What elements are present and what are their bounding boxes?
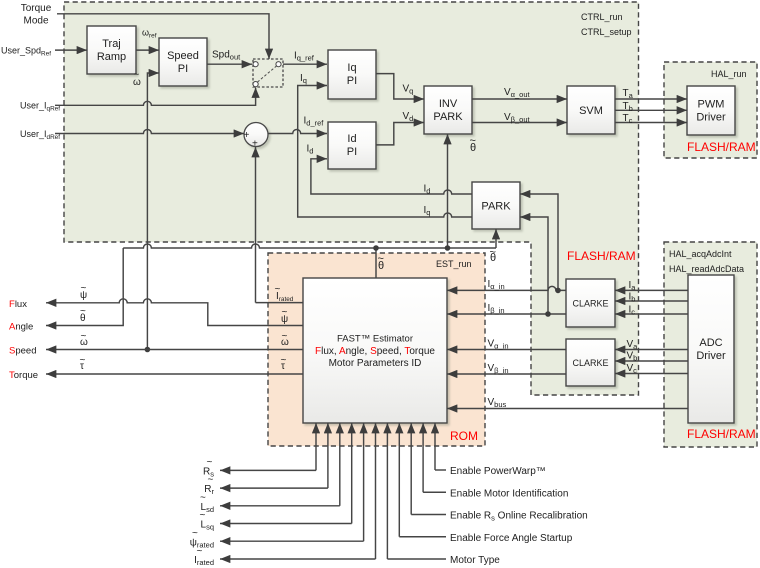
svg-text:PARK: PARK [433, 111, 463, 123]
svg-text:Vbus: Vbus [488, 397, 507, 409]
wire Torque Mode to switch [57, 14, 269, 59]
svg-text:HAL_readAdcData: HAL_readAdcData [669, 264, 744, 274]
wire Id feedback from PARK to Id PI [311, 159, 472, 194]
wire ADC to CLARKE1 (Ic) [615, 313, 688, 315]
wire torque output (tau) row [46, 373, 303, 375]
svg-text:Irated: Irated [194, 555, 214, 567]
wire Enable Rs Online Recalibration [410, 423, 412, 515]
svg-text:~: ~ [80, 355, 86, 366]
wire flux output (psi) from FAST to Flux arrow [46, 299, 303, 326]
svg-text:~: ~ [208, 475, 214, 486]
block ADC Driver [688, 275, 734, 423]
junction dot Ibeta riser [545, 311, 551, 317]
svg-text:Vα_in: Vα_in [488, 339, 509, 351]
svg-text:Iα_in: Iα_in [488, 279, 505, 291]
svg-text:PI: PI [347, 146, 357, 158]
svg-text:Iβ_in: Iβ_in [488, 303, 505, 315]
wire Irated pin horizontal into FAST [256, 302, 304, 304]
svg-text:~: ~ [200, 510, 206, 521]
junction dot speed feedback on speed row [145, 347, 151, 353]
svg-text:+: + [244, 130, 250, 141]
svg-text:Motor Type: Motor Type [450, 555, 500, 566]
wire FAST param psi_rated out [363, 423, 365, 541]
wire ADC to CLARKE2 (Vb) [615, 360, 688, 362]
junction dot Ialpha riser [555, 288, 561, 294]
block FAST Estimator [303, 278, 447, 423]
block Iq PI [328, 50, 376, 99]
wire FAST param Rr out [327, 423, 329, 488]
wire SVM to PWM Driver (Tb) [615, 109, 687, 111]
wire speed feedback into Speed PI [147, 73, 159, 350]
svg-text:~: ~ [490, 247, 496, 259]
svg-text:~: ~ [200, 492, 206, 503]
svg-text:Motor Parameters ID: Motor Parameters ID [329, 358, 422, 369]
svg-text:Enable Force Angle Startup: Enable Force Angle Startup [450, 533, 573, 544]
svg-text:User_IqRef: User_IqRef [20, 101, 60, 113]
wire FAST param Lsq out [351, 423, 353, 524]
wire User_SpdRef to Traj Ramp [55, 49, 87, 51]
node CTRL region (green dashed union) [64, 2, 639, 395]
svg-text:~: ~ [282, 307, 288, 318]
svg-text:Enable PowerWarp™: Enable PowerWarp™ [450, 466, 546, 477]
svg-text:Traj: Traj [102, 38, 121, 50]
block PARK [472, 182, 520, 229]
wire switch to Iq PI (Iq_ref) [283, 63, 327, 65]
svg-text:HAL_run: HAL_run [711, 69, 747, 79]
wire ADC to CLARKE2 (Vc) [615, 373, 688, 375]
wire Traj Ramp to Speed PI [136, 49, 159, 51]
wire theta riser into INV PARK [447, 134, 449, 248]
svg-text:Speed: Speed [9, 346, 36, 357]
wire theta bus [123, 244, 496, 248]
svg-text:~: ~ [281, 355, 287, 366]
wire FAST param I_rated out [375, 423, 377, 559]
svg-text:~: ~ [81, 331, 87, 342]
svg-text:~: ~ [282, 331, 288, 342]
svg-text:Driver: Driver [696, 350, 726, 362]
svg-text:Ramp: Ramp [97, 51, 126, 63]
svg-text:Enable Motor Identification: Enable Motor Identification [450, 488, 568, 499]
svg-text:Torque: Torque [9, 370, 38, 381]
svg-text:CTRL_run: CTRL_run [581, 12, 623, 22]
block INV PARK [424, 86, 472, 134]
svg-text:FLASH/RAM: FLASH/RAM [687, 427, 756, 441]
svg-text:CTRL_setup: CTRL_setup [581, 27, 632, 37]
wire Iq feedback from PARK to Iq PI [298, 86, 472, 218]
junction dot theta bus at FAST drop [373, 245, 379, 251]
svg-text:Flux: Flux [9, 299, 27, 310]
wire Irated estimate up into summing junction [255, 147, 257, 303]
block PWM Driver [687, 86, 735, 135]
wire ADC to CLARKE1 (Ia) [615, 289, 688, 291]
node HAL_run region (top-right dashed) [664, 62, 757, 158]
svg-text:FAST™ Estimator: FAST™ Estimator [337, 334, 413, 345]
svg-text:~: ~ [378, 253, 384, 265]
svg-text:~: ~ [470, 135, 476, 147]
block SVM [567, 86, 615, 134]
wire Iq PI to INV PARK (Vq) [376, 74, 424, 99]
svg-text:~: ~ [134, 70, 140, 81]
wire ADC to CLARKE2 (Va) [615, 349, 688, 351]
junction dot theta bus at INV PARK riser [445, 245, 451, 251]
svg-text:Mode: Mode [23, 16, 48, 27]
wire Ialpha_in row from CLARKE to FAST [447, 286, 566, 290]
summing junction U2 [244, 123, 269, 150]
svg-text:Speed: Speed [167, 50, 199, 62]
svg-text:Angle: Angle [9, 322, 33, 333]
node ROM region (pink dashed) [268, 253, 485, 446]
wire Enable PowerWarp [434, 423, 436, 470]
svg-text:Enable Rs Online Recalibration: Enable Rs Online Recalibration [450, 511, 588, 523]
svg-text:SVM: SVM [579, 105, 603, 117]
wire theta bus up into PARK [495, 229, 497, 248]
wire Speed PI to switch [207, 63, 252, 65]
svg-text:ROM: ROM [450, 429, 478, 443]
wire Ibeta up to PARK input 2 [520, 217, 548, 314]
svg-text:Id: Id [347, 133, 356, 145]
wire summing junction to Id PI (Id_ref) [268, 130, 327, 134]
svg-text:Iq: Iq [347, 62, 356, 74]
wire User_IqRef to switch bottom [55, 88, 256, 106]
svg-text:Lsq: Lsq [201, 520, 214, 532]
wire FAST param Lsd out [339, 423, 341, 506]
wire SVM to PWM Driver (Ta) [615, 98, 687, 100]
wire INV PARK to SVM (Vbeta_out) [472, 122, 567, 124]
svg-text:PARK: PARK [481, 201, 511, 213]
block Id PI [328, 122, 376, 169]
switch S1 (torque/speed mode, dashed) [253, 59, 283, 87]
wire Vbus row from ADC to FAST [447, 408, 688, 410]
block Traj Ramp [87, 26, 136, 74]
svg-text:INV: INV [439, 98, 458, 110]
wire speed output (omega) row [46, 349, 303, 351]
svg-text:~: ~ [192, 528, 198, 539]
svg-text:User_IdRef: User_IdRef [20, 129, 60, 141]
svg-text:FLASH/RAM: FLASH/RAM [567, 249, 636, 263]
wire User_IdRef to summing junction [55, 130, 244, 134]
svg-text:~: ~ [197, 546, 203, 557]
wire Vbeta_in row from CLARKE2 to FAST [447, 373, 566, 375]
svg-text:PWM: PWM [698, 99, 725, 111]
wire INV PARK to SVM (Valpha_out) [472, 98, 567, 100]
svg-text:EST_run: EST_run [436, 259, 472, 269]
svg-text:ADC: ADC [699, 337, 722, 349]
wire SVM to PWM Driver (Tc) [615, 122, 687, 124]
svg-text:Torque: Torque [21, 3, 52, 14]
wire ADC to CLARKE1 (Ib) [615, 300, 688, 302]
wire Valpha_in row from CLARKE2 to FAST [447, 349, 566, 351]
svg-text:FLASH/RAM: FLASH/RAM [687, 140, 756, 154]
svg-text:CLARKE: CLARKE [572, 358, 608, 368]
svg-text:CLARKE: CLARKE [572, 299, 608, 309]
svg-text:~: ~ [81, 283, 87, 294]
wire Ibeta_in row from CLARKE to FAST [447, 313, 566, 315]
svg-text:~: ~ [80, 306, 86, 317]
wire Id PI to INV PARK (Vd) [376, 123, 424, 145]
wire FAST param Rs out [315, 423, 317, 470]
svg-text:~: ~ [275, 284, 281, 295]
wire enable Motor Type [386, 423, 388, 559]
svg-text:Vβ_in: Vβ_in [488, 363, 509, 375]
wire theta from FAST top [375, 248, 377, 278]
block Speed PI [159, 38, 207, 86]
svg-text:PI: PI [347, 75, 357, 87]
svg-text:PI: PI [178, 63, 188, 75]
wire angle output (theta) from bus to Angle arrow [46, 248, 123, 326]
wire Enable Force Angle Startup [398, 423, 400, 537]
wire Enable Motor Identification [422, 423, 424, 492]
node HAL_acqAdcInt region (bottom-right dashed) [664, 242, 757, 447]
svg-text:HAL_acqAdcInt: HAL_acqAdcInt [669, 249, 732, 259]
svg-text:User_SpdRef: User_SpdRef [1, 46, 51, 58]
block CLARKE (voltages) [566, 339, 615, 386]
svg-text:Driver: Driver [696, 112, 726, 124]
block CLARKE (currents) [566, 279, 615, 327]
wire Ialpha up to PARK input 1 [520, 194, 558, 290]
svg-text:Flux, Angle, Speed, Torque: Flux, Angle, Speed, Torque [315, 346, 435, 357]
svg-text:~: ~ [207, 457, 213, 468]
